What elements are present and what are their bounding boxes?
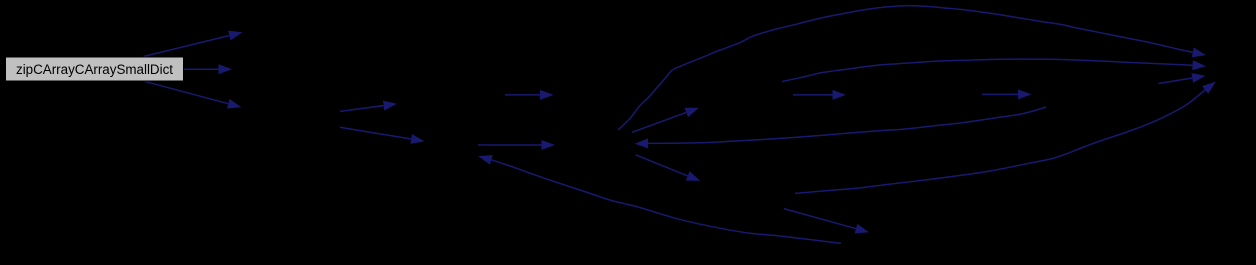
svg-text:zipCArrayCArraySmallDict: zipCArrayCArraySmallDict [16,62,173,77]
